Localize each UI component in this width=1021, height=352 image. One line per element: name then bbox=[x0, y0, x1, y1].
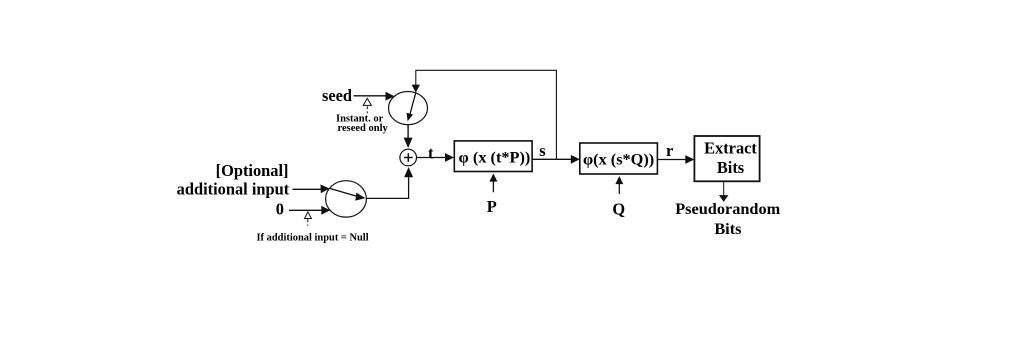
svg-text:[Optional]: [Optional] bbox=[216, 161, 289, 180]
label Pseudorandom Bits bbox=[675, 199, 780, 238]
wire extract to output bbox=[719, 182, 728, 202]
svg-text:additional input: additional input bbox=[177, 180, 290, 199]
wire r from F2 to extract bbox=[657, 155, 694, 164]
dashed arrow if-null bbox=[305, 212, 312, 226]
svg-text:If additional input = Null: If additional input = Null bbox=[257, 233, 369, 244]
svg-text:φ (x (t*P)): φ (x (t*P)) bbox=[459, 147, 531, 166]
svg-text:t: t bbox=[428, 144, 434, 163]
svg-text:Extract: Extract bbox=[704, 139, 757, 158]
svg-text:Q: Q bbox=[612, 200, 625, 219]
svg-text:0: 0 bbox=[276, 200, 284, 219]
label Instant. or reseed only bbox=[336, 114, 389, 135]
svg-text:reseed only: reseed only bbox=[338, 123, 389, 134]
switch S1 (seed/feedback selector) bbox=[389, 92, 428, 125]
svg-text:Bits: Bits bbox=[717, 158, 744, 177]
adder A1 (+) bbox=[400, 149, 417, 166]
svg-text:r: r bbox=[666, 141, 673, 160]
wire S1 to adder bbox=[404, 125, 413, 148]
block Extract Bits bbox=[694, 136, 759, 181]
svg-text:φ(x (s*Q)): φ(x (s*Q)) bbox=[583, 149, 654, 168]
dashed arrow instantiate/reseed bbox=[363, 98, 371, 113]
arrow Q into F2 bbox=[615, 176, 623, 194]
arrow P into F1 bbox=[489, 174, 497, 193]
feedback wire s to S1 bbox=[412, 70, 557, 159]
svg-text:seed: seed bbox=[322, 86, 352, 105]
svg-text:s: s bbox=[539, 141, 545, 160]
switch S1 arm bbox=[407, 92, 416, 121]
svg-text:P: P bbox=[487, 197, 497, 216]
wire S2 to adder bbox=[366, 167, 413, 198]
wire s from F1 to F2 bbox=[532, 155, 580, 164]
block F2 bbox=[580, 143, 658, 174]
wire adder to block F1 bbox=[417, 153, 455, 162]
switch S2 (additional input selector) bbox=[326, 181, 367, 217]
svg-text:Pseudorandom: Pseudorandom bbox=[675, 199, 780, 218]
wire 0 to switch S2 bbox=[289, 206, 330, 215]
wire seed to switch S1 bbox=[354, 92, 395, 101]
switch S2 arm bbox=[330, 189, 366, 201]
label [Optional] additional input bbox=[177, 161, 290, 199]
svg-text:Bits: Bits bbox=[714, 219, 741, 238]
block F1 bbox=[454, 141, 532, 172]
wire additional input to switch S2 bbox=[293, 184, 330, 193]
label Extract Bits bbox=[704, 139, 757, 178]
